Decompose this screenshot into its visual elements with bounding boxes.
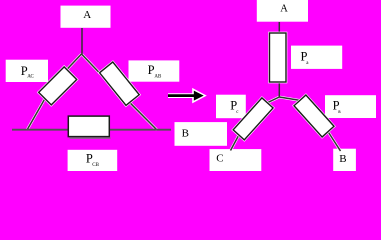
svg-text:В: В [339, 153, 346, 165]
svg-text:С: С [216, 152, 223, 164]
svg-text:АС: АС [27, 75, 34, 80]
svg-text:А: А [280, 3, 288, 14]
svg-text:СВ: СВ [92, 163, 99, 168]
svg-text:А: А [83, 9, 91, 21]
svg-text:АВ: АВ [154, 75, 162, 80]
svg-text:В: В [182, 127, 189, 139]
